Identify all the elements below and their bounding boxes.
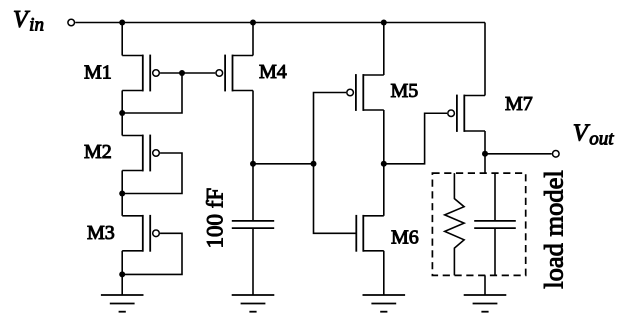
node A / M5 M6 gate column (311, 161, 317, 167)
input terminal Vin (68, 19, 75, 26)
wire gate bus M1-M4 (182, 72, 215, 74)
svg-text:M5: M5 (391, 80, 419, 102)
node M1 gate-drain tie (179, 70, 185, 76)
resistor R load (445, 173, 464, 275)
node rail / M5 source (381, 20, 387, 26)
ground M6 source (363, 295, 406, 312)
svg-text:load model: load model (538, 170, 568, 289)
node rail / M4 source (250, 20, 256, 26)
svg-text:M3: M3 (87, 222, 115, 244)
wire Vout to load box (484, 154, 486, 173)
capacitor C1 100 fF (232, 221, 274, 228)
node Vout (482, 151, 488, 157)
load model dashed box (432, 173, 525, 275)
wire M1 drain (121, 91, 123, 114)
wire M7 drain to Vout (484, 131, 486, 154)
wire M7 source from rail (484, 23, 486, 96)
wire M3 drain (121, 251, 123, 275)
wire M2 diode tie (122, 153, 182, 194)
wire M5 source to rail (383, 23, 385, 76)
svg-text:M7: M7 (505, 93, 533, 115)
wire M6 gate (314, 164, 357, 234)
wire M3 diode tie (122, 233, 182, 274)
wire M5 gate (314, 93, 347, 164)
svg-text:M2: M2 (84, 141, 112, 163)
node M2 drain / M3 source (119, 191, 125, 197)
wire M6 drain from node B (383, 164, 385, 216)
wire M6 source to ground (383, 251, 385, 295)
transistor M3 (PMOS) (122, 215, 159, 252)
wire top supply rail (75, 22, 485, 24)
svg-text:M1: M1 (84, 61, 112, 83)
wire M2 source (121, 113, 123, 136)
transistor M6 (NMOS) (356, 215, 384, 252)
svg-text:M4: M4 (259, 61, 287, 83)
wire M1 diode tie (122, 73, 182, 113)
output terminal Vout (553, 151, 560, 158)
node M1 drain / M2 source (119, 110, 125, 116)
svg-text:100 fF: 100 fF (202, 188, 227, 249)
ground comp cap (232, 295, 275, 312)
transistor M5 (PMOS) (347, 74, 384, 111)
wire capacitor to ground (252, 228, 254, 295)
wire M2 drain (121, 171, 123, 194)
svg-text:M6: M6 (391, 226, 419, 248)
wire M3 drain to ground (121, 274, 123, 295)
transistor M7 (PMOS) (448, 95, 485, 132)
wire node B to M7 gate (384, 113, 447, 164)
wire M1 gate (160, 72, 182, 74)
capacitor C load (474, 173, 516, 275)
wire node A to capacitor (252, 164, 254, 221)
ground bias chain (101, 295, 144, 312)
transistor M4 (PMOS) (216, 55, 253, 92)
wire M4 source to rail (252, 23, 254, 56)
wire node A (253, 163, 314, 165)
node M3 drain (119, 271, 125, 277)
node B: M5 drain / M6 drain (381, 161, 387, 167)
wire M1 source from rail (121, 23, 123, 56)
node rail / M1 source (119, 20, 125, 26)
wire M5 drain to node B (383, 110, 385, 164)
wire M4 drain to node A (252, 91, 254, 164)
wire Vout (485, 153, 552, 155)
node A: M4 drain / comp cap (250, 161, 256, 167)
ground load (464, 295, 507, 312)
wire M3 source (121, 194, 123, 216)
transistor M1 (PMOS) (122, 55, 159, 92)
transistor M2 (PMOS) (122, 135, 159, 172)
wire load box to ground (484, 275, 486, 295)
